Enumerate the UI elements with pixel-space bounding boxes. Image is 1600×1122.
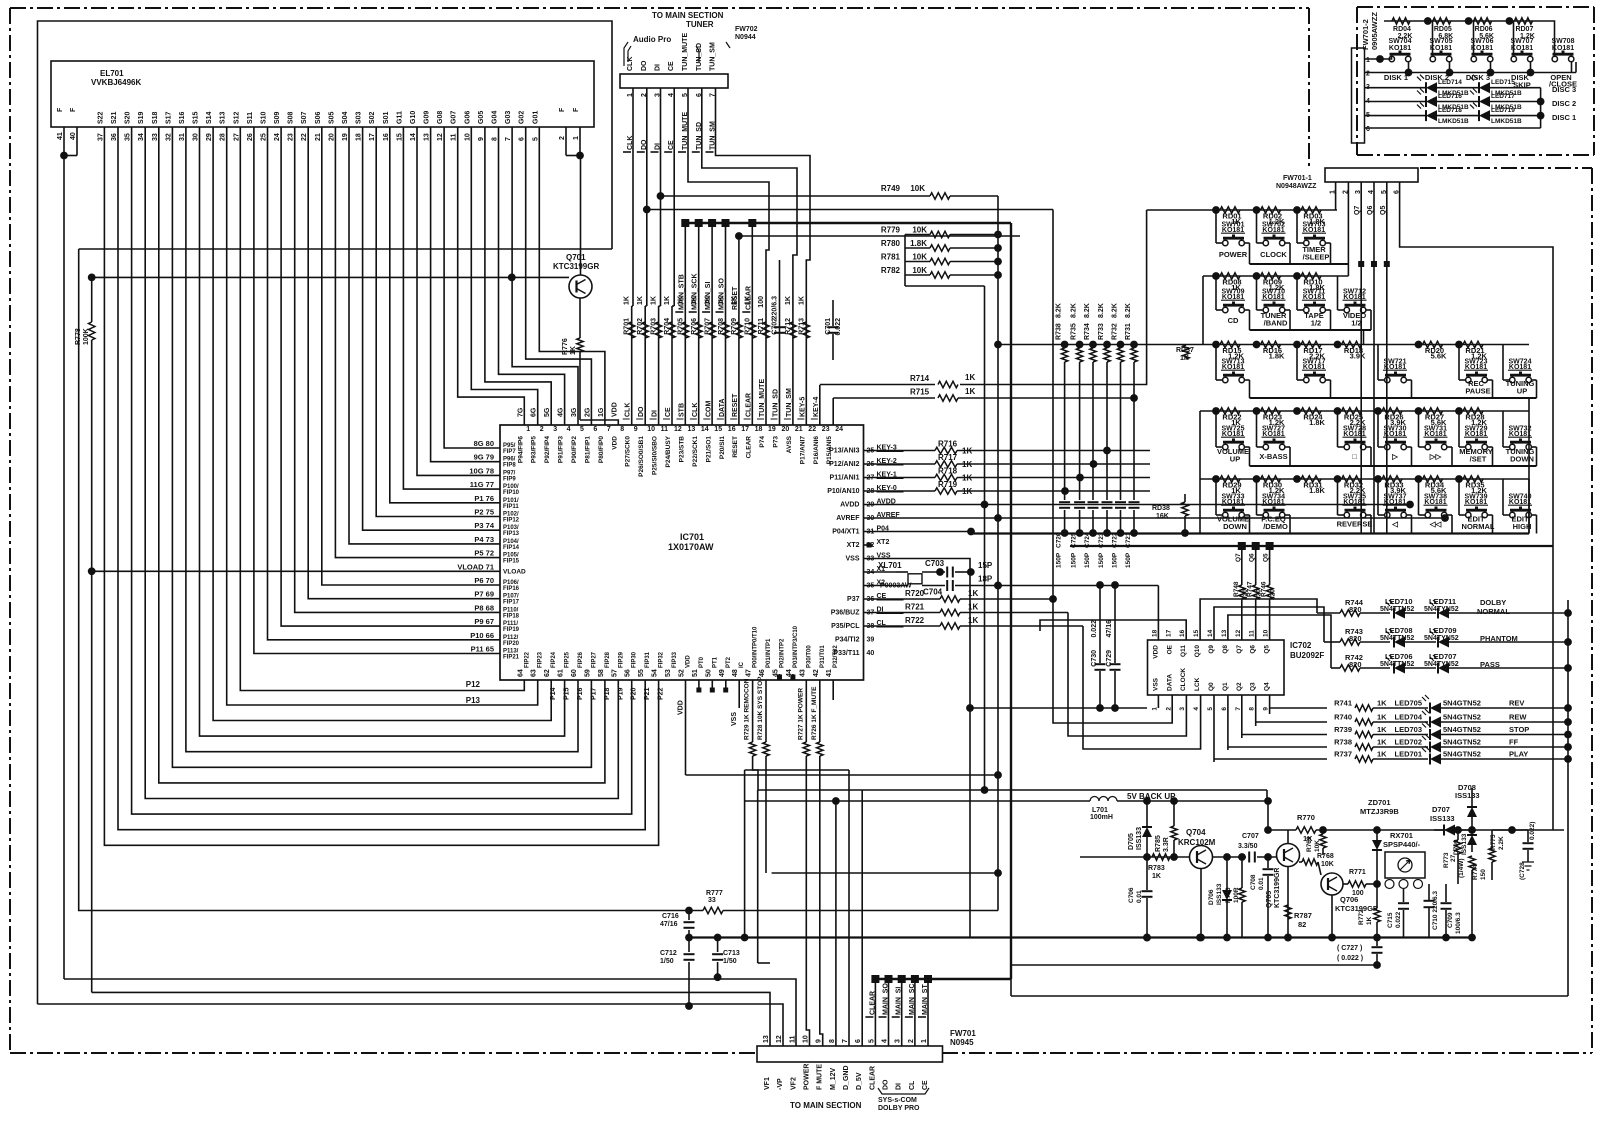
- svg-text:8.2K: 8.2K: [1112, 303, 1119, 318]
- svg-text:10: 10: [464, 133, 471, 141]
- svg-text:19: 19: [342, 133, 349, 141]
- svg-text:8: 8: [492, 137, 499, 141]
- svg-text:FIP9: FIP9: [503, 476, 516, 482]
- svg-text:TUN_MUTE: TUN_MUTE: [759, 379, 766, 417]
- svg-text:G10: G10: [410, 111, 417, 124]
- wire SW706 right terminal: [1490, 62, 1492, 72]
- svg-text:51: 51: [692, 669, 699, 677]
- svg-text:26: 26: [247, 133, 254, 141]
- resistor R777 33: [703, 907, 723, 913]
- wire S18 staircase to IC pin 58 P18: [159, 127, 605, 783]
- svg-text:G07: G07: [451, 111, 458, 124]
- resistor R710 1K: [749, 322, 755, 338]
- svg-text:LED719: LED719: [1491, 107, 1515, 114]
- capacitor C704 18P: [922, 585, 945, 587]
- svg-text:6G: 6G: [531, 407, 538, 417]
- svg-text:ISS133: ISS133: [1455, 791, 1480, 800]
- capacitor C715 0.022: [1403, 888, 1405, 902]
- wire S09 to IC left pin P9: [281, 127, 500, 626]
- svg-text:F MUTE: F MUTE: [817, 1064, 824, 1090]
- capacitor C721 150P: [1129, 501, 1140, 503]
- resistor RD21 1.2K: [1455, 341, 1463, 349]
- svg-text:SW704: SW704: [1389, 38, 1412, 45]
- svg-text:Audio Pro: Audio Pro: [633, 35, 671, 44]
- wire S05 to IC left pin P5: [335, 127, 500, 558]
- svg-text:Q705: Q705: [1266, 891, 1273, 908]
- wire G05 to IC pin 3: [485, 127, 551, 425]
- resistor R739 1K: [1355, 731, 1373, 737]
- LED LED703 5N4GTN52: [1430, 729, 1441, 740]
- svg-text:XT2: XT2: [877, 539, 890, 546]
- svg-text:4: 4: [882, 1039, 889, 1043]
- svg-text:1X0170AW: 1X0170AW: [668, 542, 714, 552]
- svg-text:60: 60: [571, 669, 578, 677]
- wire Q704 to C707: [1213, 856, 1247, 858]
- resistor bank R738-R731 8.2K columns: [994, 341, 1002, 349]
- switch SW703 KO181: [1296, 210, 1298, 243]
- svg-text:100/6.3: 100/6.3: [1455, 912, 1462, 934]
- wire IC702 output to PHANTOM row: [1214, 607, 1324, 642]
- wire IC702 output to DOLBY row: [1200, 599, 1317, 640]
- switch SW731 KO181: [1418, 411, 1420, 447]
- svg-text:VDD: VDD: [1152, 645, 1159, 659]
- svg-text:Q6: Q6: [1367, 206, 1374, 215]
- svg-text:8: 8: [1249, 707, 1256, 711]
- resistor RD07 1.2K: [1514, 18, 1532, 24]
- svg-text:3: 3: [553, 426, 557, 433]
- wire Q705 Q706 verticals: [1287, 867, 1289, 938]
- svg-text:59: 59: [584, 669, 591, 677]
- svg-text:R746: R746: [1261, 581, 1268, 597]
- switch row 2 bottom line: [1250, 329, 1372, 331]
- svg-text:R702: R702: [637, 318, 644, 335]
- capacitor C713 1/50: [714, 934, 722, 942]
- svg-text:DATA: DATA: [1166, 674, 1173, 691]
- svg-text:15: 15: [396, 133, 403, 141]
- svg-text:P3 74: P3 74: [474, 521, 494, 530]
- svg-text:VLOAD: VLOAD: [503, 568, 526, 575]
- svg-text:R786: R786: [1225, 887, 1232, 903]
- svg-text:/SET: /SET: [1470, 455, 1487, 464]
- svg-text:FIP10: FIP10: [503, 490, 520, 496]
- svg-text:RD37: RD37: [1176, 347, 1194, 354]
- svg-text:LED704: LED704: [1394, 713, 1422, 722]
- svg-text:EL701: EL701: [100, 69, 124, 78]
- svg-text:1K: 1K: [664, 296, 671, 305]
- svg-text:1/2: 1/2: [1311, 319, 1321, 328]
- svg-text:R774: R774: [1472, 864, 1479, 880]
- crystal XL701 P0003AW: [864, 571, 897, 573]
- wire AVDD: [864, 504, 985, 506]
- svg-text:CE: CE: [922, 1080, 929, 1090]
- svg-text:P11/ANI1: P11/ANI1: [830, 475, 860, 482]
- switch row 4 bus: [1200, 410, 1529, 412]
- svg-text:POWER: POWER: [1219, 250, 1248, 259]
- svg-text:43: 43: [799, 669, 806, 677]
- resistor R785 3.3R: [1171, 826, 1177, 840]
- svg-text:1K: 1K: [1377, 699, 1387, 708]
- wire S13 to IC pin 63 P13: [227, 127, 538, 705]
- svg-text:9: 9: [478, 137, 485, 141]
- svg-text:MAIN_SC: MAIN_SC: [909, 983, 916, 1015]
- resistor R740 1K: [1355, 719, 1373, 725]
- svg-text:P10/AN10: P10/AN10: [827, 488, 859, 495]
- driver IC702 BU2092F: [1148, 640, 1285, 695]
- svg-text:3: 3: [895, 1039, 902, 1043]
- resistor RD27 5.6K: [1415, 407, 1423, 415]
- svg-text:1K: 1K: [1180, 355, 1189, 362]
- switch SW728 KO181: [1337, 411, 1339, 447]
- svg-text:X-BASS: X-BASS: [1259, 452, 1287, 461]
- svg-text:1K: 1K: [965, 387, 975, 396]
- svg-text:R715: R715: [910, 388, 930, 397]
- resistor RD34 5.6K: [1415, 475, 1423, 483]
- wire S03 to IC left pin P3: [363, 127, 500, 530]
- switch SW711 KO181: [1296, 276, 1298, 310]
- wire from VDD pin52 down-right: [686, 774, 999, 776]
- wire CE tuner to IC pin 12: [673, 88, 675, 306]
- svg-text:DISK 1: DISK 1: [1384, 73, 1408, 82]
- wire lower MAIN bus: [875, 978, 1011, 980]
- svg-text:Q11: Q11: [1180, 645, 1187, 657]
- svg-text:P18: P18: [604, 687, 611, 700]
- svg-text:LCK: LCK: [1194, 677, 1201, 691]
- svg-text:12: 12: [437, 133, 444, 141]
- svg-text:R782: R782: [881, 266, 901, 275]
- svg-text:DISC 1: DISC 1: [1552, 113, 1576, 122]
- wire column x38 to connector pin 12: [38, 1004, 784, 1046]
- svg-text:11: 11: [451, 133, 458, 141]
- svg-text:R778: R778: [75, 328, 82, 345]
- wire R779 bus left: [904, 235, 906, 287]
- svg-text:13: 13: [688, 426, 696, 433]
- resistor R775 2.2K: [1489, 848, 1495, 862]
- svg-text:CLEAR: CLEAR: [745, 286, 752, 310]
- svg-text:11: 11: [789, 1035, 796, 1043]
- svg-text:5: 5: [532, 137, 539, 141]
- svg-text:FW701: FW701: [950, 1029, 976, 1038]
- wire G09 to IC pin 79: [431, 127, 500, 462]
- wire y770 horizontal: [745, 769, 849, 771]
- svg-text:29: 29: [206, 133, 213, 141]
- svg-text:R785: R785: [1155, 835, 1162, 852]
- capacitor C726 150P: [1059, 501, 1070, 503]
- wire S10 to IC left pin P10: [268, 127, 501, 640]
- resistor R712 1K: [790, 322, 796, 338]
- svg-text:28: 28: [220, 133, 227, 141]
- svg-text:5: 5: [1207, 707, 1214, 711]
- microcontroller IC701 1X0170AW: [500, 425, 864, 680]
- svg-text:LED718: LED718: [1438, 107, 1462, 114]
- svg-text:19: 19: [768, 426, 776, 433]
- wire G02 to IC pin 6: [526, 127, 592, 425]
- svg-text:N0948AWZZ: N0948AWZZ: [1276, 183, 1317, 190]
- wire TUN_SD to IC pin 21: [702, 88, 797, 425]
- wire S02 to IC left pin P2: [376, 127, 500, 517]
- capacitor C707 3.3/50: [1248, 852, 1250, 863]
- RX701 pin 2: [1399, 880, 1408, 889]
- svg-text:1K: 1K: [1377, 713, 1387, 722]
- wire mid analog line y857: [1080, 856, 1190, 858]
- capacitor C709 100/6.3: [1445, 884, 1447, 902]
- wire S07 to IC left pin P7: [308, 127, 500, 599]
- connector FW702 N0944 TO MAIN SECTION TUNER: [620, 74, 728, 88]
- svg-text:14: 14: [410, 133, 417, 141]
- wire DI tuner to IC pin 11: [660, 88, 662, 306]
- svg-text:MAIN_SO: MAIN_SO: [719, 278, 726, 310]
- svg-text:VSS: VSS: [845, 556, 859, 563]
- svg-text:R708: R708: [718, 318, 725, 335]
- svg-text:11: 11: [1249, 630, 1256, 637]
- svg-text:P15: P15: [564, 687, 571, 700]
- svg-text:10K: 10K: [1321, 861, 1334, 868]
- svg-text:DI: DI: [652, 410, 659, 417]
- svg-text:C715: C715: [1387, 912, 1394, 928]
- svg-text:N0944: N0944: [735, 34, 756, 41]
- svg-text:SYS-s-COM: SYS-s-COM: [878, 1097, 917, 1104]
- svg-text:41: 41: [57, 132, 64, 140]
- svg-text:P33/T11: P33/T11: [833, 650, 859, 657]
- svg-text:FIP31: FIP31: [645, 651, 651, 668]
- svg-text:R731: R731: [1125, 323, 1132, 340]
- svg-text:1.8K: 1.8K: [1309, 486, 1325, 495]
- svg-text:4G: 4G: [558, 407, 565, 417]
- svg-text:1.8K: 1.8K: [1269, 352, 1285, 361]
- wire FW701-1 pin6: [1400, 182, 1553, 830]
- svg-text:R732: R732: [1112, 323, 1119, 340]
- svg-text:3.3R: 3.3R: [1163, 837, 1170, 852]
- svg-text:D705: D705: [1128, 833, 1135, 850]
- resistor RD23 1.2K: [1253, 407, 1261, 415]
- svg-text:Q6: Q6: [1250, 645, 1257, 654]
- svg-text:64: 64: [517, 669, 524, 677]
- svg-text:FIP26: FIP26: [578, 651, 584, 668]
- svg-text:1K: 1K: [1152, 873, 1161, 880]
- svg-text:R727 1K POWER: R727 1K POWER: [797, 688, 804, 740]
- svg-text:C712: C712: [660, 950, 677, 957]
- connector FW701 N0945: [757, 1046, 943, 1062]
- svg-text:7: 7: [607, 426, 611, 433]
- switch SW723 KO181: [1458, 345, 1460, 381]
- svg-text:P01/INTP1: P01/INTP1: [766, 638, 772, 668]
- wire Q11 left: [1040, 620, 1186, 640]
- svg-text:M_12V: M_12V: [830, 1067, 837, 1090]
- svg-text:VSS: VSS: [731, 712, 738, 726]
- svg-text:TUN_SM: TUN_SM: [710, 42, 717, 71]
- svg-text:CE: CE: [665, 407, 672, 417]
- svg-text:8.2K: 8.2K: [1071, 303, 1078, 318]
- switch SW713 KO181: [1215, 345, 1217, 381]
- svg-text:1K: 1K: [962, 460, 972, 469]
- switch row 1 bottom line: [1250, 263, 1331, 265]
- svg-text:FIP29: FIP29: [618, 651, 624, 668]
- svg-text:47: 47: [746, 669, 753, 677]
- svg-text:1: 1: [573, 136, 580, 140]
- wire S14 staircase to IC pin 62 P14: [213, 127, 551, 721]
- svg-text:C708: C708: [1250, 874, 1257, 890]
- svg-text:15: 15: [714, 426, 722, 433]
- svg-text:Q704: Q704: [1186, 828, 1206, 837]
- svg-text:3.9K: 3.9K: [1350, 352, 1366, 361]
- disc LED common wires: [1537, 98, 1545, 106]
- wire IC702 Q1 to FF row: [1228, 695, 1327, 750]
- svg-text:Q9: Q9: [1208, 645, 1215, 654]
- svg-text:P37: P37: [847, 596, 860, 603]
- wire IC702 Q3 to REW row: [1256, 695, 1327, 726]
- svg-text:1K: 1K: [1377, 738, 1387, 747]
- svg-text:24: 24: [274, 133, 281, 141]
- bracket SYS-s-COM DOLBY PRO: [878, 1088, 929, 1094]
- svg-text:CL: CL: [909, 1080, 916, 1090]
- svg-text:5N4TTN52: 5N4TTN52: [1380, 606, 1414, 613]
- svg-text:5.6K: 5.6K: [1431, 352, 1447, 361]
- svg-text:15: 15: [1193, 629, 1200, 637]
- svg-text:FIP23: FIP23: [538, 651, 544, 668]
- svg-text:7: 7: [505, 137, 512, 141]
- svg-text:1: 1: [921, 1039, 928, 1043]
- svg-text:P12/ANI2: P12/ANI2: [829, 461, 859, 468]
- svg-text:56: 56: [625, 669, 632, 677]
- resistor RD28 1.2K: [1455, 407, 1463, 415]
- svg-text:31: 31: [179, 133, 186, 141]
- resistor R743 820: [1324, 641, 1340, 643]
- svg-text:P14: P14: [550, 687, 557, 700]
- svg-text:C703: C703: [925, 559, 945, 568]
- wire TUN_MUTE to IC pin 19: [688, 88, 769, 425]
- svg-text:DISC 3: DISC 3: [1552, 85, 1576, 94]
- wire FW701-1 pin1 to row1 bus: [1335, 182, 1337, 210]
- resistor RD25 2.2K: [1334, 407, 1342, 415]
- LED pair LED716 LED717 DISC 2: [1365, 101, 1427, 103]
- svg-text:P21/SO1: P21/SO1: [705, 436, 712, 463]
- svg-text:R773: R773: [1443, 852, 1450, 868]
- resistor R778 100K: [91, 277, 93, 322]
- svg-text:1: 1: [1151, 707, 1158, 711]
- resistor RD30 1.2K: [1253, 475, 1261, 483]
- svg-text:1K: 1K: [962, 474, 972, 483]
- wires MAIN squares to connector: [871, 975, 879, 983]
- svg-text:P4 73: P4 73: [474, 535, 494, 544]
- svg-text:FIP19: FIP19: [503, 627, 520, 633]
- svg-text:FIP21: FIP21: [503, 655, 520, 661]
- svg-text:12: 12: [674, 426, 682, 433]
- svg-text:S08: S08: [288, 111, 295, 124]
- svg-text:5N4TTN52: 5N4TTN52: [1380, 635, 1414, 642]
- svg-text:R772: R772: [1358, 909, 1365, 925]
- transistor Q701 KTC3199GR: [569, 275, 592, 298]
- wire VSS pin 48: [738, 680, 740, 708]
- wire bottom analog junctions: [1143, 934, 1151, 942]
- svg-text:DI: DI: [655, 64, 662, 71]
- svg-text:150: 150: [1480, 869, 1487, 880]
- svg-text:C716: C716: [662, 913, 679, 920]
- wire C706 0.01: [1146, 857, 1148, 890]
- svg-text:RD04: RD04: [1393, 26, 1411, 33]
- svg-text:IC701: IC701: [680, 532, 704, 542]
- svg-text:18: 18: [356, 133, 363, 141]
- svg-text:37: 37: [97, 133, 104, 141]
- svg-text:VDD: VDD: [611, 402, 618, 417]
- connector FW701-2 bar: [1352, 48, 1365, 143]
- svg-text:S10: S10: [261, 111, 268, 124]
- svg-text:FIP15: FIP15: [503, 559, 520, 565]
- svg-text:15P: 15P: [978, 561, 993, 570]
- svg-text:FW701-2: FW701-2: [1361, 19, 1370, 50]
- svg-text:AVDD: AVDD: [840, 502, 859, 509]
- switch SW702 KO181: [1256, 210, 1258, 243]
- resistor R780 1.8K: [905, 247, 930, 249]
- svg-text:820: 820: [1349, 634, 1362, 643]
- svg-text:FIP8: FIP8: [503, 463, 516, 469]
- svg-text:1G: 1G: [598, 407, 605, 417]
- resistor R717 1K KEY-2: [864, 463, 936, 465]
- svg-text:FIP25: FIP25: [565, 651, 571, 668]
- resistor R779 10K: [905, 234, 930, 236]
- svg-text:0.01: 0.01: [1258, 877, 1265, 890]
- resistor RD24 1.8K: [1293, 407, 1301, 415]
- svg-text:50: 50: [705, 669, 712, 677]
- svg-text:S14: S14: [206, 111, 213, 124]
- svg-text:S02: S02: [369, 111, 376, 124]
- svg-text:8.2K: 8.2K: [1084, 303, 1091, 318]
- svg-text:ISS133: ISS133: [1461, 833, 1468, 855]
- svg-text:C709: C709: [1447, 912, 1454, 928]
- svg-text:100K: 100K: [83, 328, 90, 345]
- svg-text:P5 72: P5 72: [474, 549, 494, 558]
- switch row 4 bottom line: [1250, 465, 1537, 467]
- switch SW712 KO181: [1337, 276, 1339, 310]
- svg-text:R747: R747: [1247, 581, 1254, 597]
- svg-text:13: 13: [1221, 629, 1228, 637]
- svg-text:REW: REW: [1509, 713, 1527, 722]
- svg-text:1/2: 1/2: [1351, 319, 1361, 328]
- svg-text:STB: STB: [679, 403, 686, 417]
- svg-text:P11 65: P11 65: [471, 645, 494, 654]
- LED LED704 5N4GTN52: [1430, 717, 1441, 728]
- row right-edge verticals: [1528, 398, 1530, 534]
- wire pin1 to switch chain: [1365, 56, 1392, 59]
- capacitor C724 150P: [1088, 501, 1099, 503]
- svg-text:P03/INTP3/C10: P03/INTP3/C10: [793, 625, 799, 668]
- svg-text:820: 820: [1349, 660, 1362, 669]
- svg-text:REVERSE: REVERSE: [1337, 520, 1373, 529]
- svg-text:10G 78: 10G 78: [469, 466, 494, 475]
- svg-text:47/16: 47/16: [660, 921, 678, 928]
- svg-text:0.022): 0.022): [1529, 822, 1536, 840]
- svg-text:RD05: RD05: [1434, 26, 1452, 33]
- svg-text:40: 40: [70, 132, 77, 140]
- svg-text:P80/FIP0: P80/FIP0: [598, 436, 605, 463]
- svg-text:5: 5: [868, 1039, 875, 1043]
- svg-text:39: 39: [867, 637, 875, 644]
- svg-text:14: 14: [1207, 629, 1214, 637]
- resistor R711 100: [763, 322, 769, 338]
- svg-text:S09: S09: [274, 111, 281, 124]
- svg-text:63: 63: [531, 669, 538, 677]
- svg-text:MAIN_ST: MAIN_ST: [922, 984, 929, 1015]
- svg-text:16: 16: [1179, 629, 1186, 637]
- wire IC702 output to PASS row: [1228, 615, 1331, 668]
- wire P02 P03 stubs: [777, 675, 782, 680]
- svg-text:FIP13: FIP13: [503, 531, 520, 537]
- resistor R776 1K: [577, 338, 583, 352]
- svg-text:DO: DO: [641, 60, 648, 71]
- wire VSS pin 33: [864, 559, 971, 938]
- svg-text:5N4TYN52: 5N4TYN52: [1424, 606, 1459, 613]
- LED LED706 5N4TTN52: [1394, 663, 1405, 674]
- svg-text:R783: R783: [1148, 865, 1165, 872]
- svg-text:S16: S16: [179, 111, 186, 124]
